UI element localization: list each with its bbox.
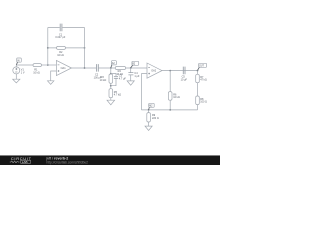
node: output end junction (197, 70, 199, 72)
wire: R8 bottom to rail corner (197, 105, 199, 110)
resistor R8 (196, 96, 207, 105)
flag node OUT (198, 63, 207, 70)
resistor R1 (33, 64, 42, 75)
flag node A (111, 61, 117, 68)
wire: feedback top row (48, 27, 85, 29)
wire: R4 to op-amp2 (126, 67, 147, 69)
node: R6 tap on output (169, 70, 171, 72)
svg-text:1 V: 1 V (21, 71, 25, 74)
node: middle row right junction (84, 47, 86, 49)
svg-text:100 Ω: 100 Ω (200, 101, 207, 104)
ground: below R5 (107, 100, 115, 105)
node: C3 top tap (110, 73, 112, 75)
resistor R6 (168, 92, 180, 101)
capacitor C4 (128, 72, 140, 78)
capacitor C1 (55, 24, 65, 40)
voltage source V1 (13, 67, 25, 75)
CircuitLab logo (10, 156, 32, 164)
wire: input node to R1 (16, 65, 33, 67)
resistor R7 (196, 74, 207, 82)
svg-text:http://circuitlab.com/c/993bu2: http://circuitlab.com/c/993bu2 (47, 161, 89, 165)
svg-text:10 kΩ: 10 kΩ (100, 79, 107, 82)
svg-text:1 μF: 1 μF (134, 75, 140, 78)
node: feedback right at output (84, 67, 86, 69)
wire: op-amp1 non-inverting input to ground (51, 71, 57, 81)
svg-text:IN: IN (17, 61, 20, 63)
svg-text:10 kΩ: 10 kΩ (33, 71, 40, 74)
svg-text:47 kΩ: 47 kΩ (200, 79, 207, 82)
resistor R9 (147, 113, 159, 122)
svg-text:LAB: LAB (22, 160, 28, 164)
wire: R7 top lead (197, 71, 199, 75)
wire: V1 bottom lead (15, 74, 17, 79)
flag node B (131, 61, 139, 67)
svg-text:4.7 μF: 4.7 μF (119, 77, 127, 80)
ground: below C4 (127, 81, 134, 85)
svg-text:10 kΩ: 10 kΩ (173, 96, 180, 99)
footer bar (0, 155, 220, 165)
wire: bottom rail (142, 109, 198, 111)
credit text (46, 157, 89, 165)
svg-text:4.7 kΩ: 4.7 kΩ (114, 94, 121, 97)
wire: R9 bottom lead (148, 122, 150, 126)
resistor R4 (115, 67, 126, 77)
wire: C4 bottom lead (130, 75, 132, 81)
svg-text:10 μF: 10 μF (181, 78, 188, 81)
node: rail R6 junction (169, 109, 171, 111)
wire: R7 to R8 (197, 83, 199, 96)
wire: R3 branch top lead (110, 68, 112, 74)
resistor R5 lower (109, 89, 121, 98)
svg-text:220 Ω: 220 Ω (152, 117, 159, 120)
wire: R9 top lead (148, 110, 150, 113)
svg-text:10 kΩ: 10 kΩ (57, 54, 64, 57)
ground: below R9 (145, 126, 152, 130)
svg-text:OUT: OUT (199, 66, 204, 68)
svg-text:10 kΩ: 10 kΩ (116, 73, 123, 76)
wire: R5 bottom lead (110, 98, 112, 101)
wire: op-amp2 output (162, 70, 198, 72)
op-amp U1 (56, 60, 71, 75)
wire: C2 to R4 (98, 67, 115, 69)
wire: feedback right vertical (84, 28, 86, 69)
wire: R3 bottom lead to node B (110, 83, 112, 88)
ground: below V1 (13, 79, 20, 83)
wire: C4 top lead (130, 68, 132, 73)
flag node M (149, 103, 155, 110)
node: feedback tap junction (47, 64, 49, 66)
wire: R1 to op-amp inverting input (42, 64, 57, 66)
capacitor C2 (94, 64, 102, 79)
flag node IN (16, 58, 21, 65)
node B junction (130, 67, 132, 69)
wire: op-amp2 non-inverting input drop (142, 74, 148, 110)
ground: op-amp1 + input (48, 81, 54, 85)
capacitor C3 (114, 75, 127, 81)
node: middle row left junction (47, 47, 49, 49)
svg-text:OA2: OA2 (151, 70, 157, 73)
wire: R6 branch (169, 71, 171, 92)
wire: op-amp1 output (72, 67, 97, 69)
svg-text:OA1: OA1 (61, 67, 67, 70)
op-amp U2 (147, 63, 162, 78)
svg-text:0.047 μF: 0.047 μF (55, 36, 65, 39)
capacitor C5 (181, 67, 188, 82)
resistor R2 (57, 46, 66, 57)
wire: feedback middle row (48, 47, 85, 49)
wire: feedback left vertical (47, 28, 49, 66)
node A junction (110, 67, 112, 69)
node: rail R9 junction (148, 109, 150, 111)
wire: C3 parallel loop (111, 74, 116, 86)
node: R3 bottom junction (110, 85, 112, 87)
resistor R3 (100, 74, 113, 83)
wire: R6 bottom to rail (169, 100, 171, 110)
